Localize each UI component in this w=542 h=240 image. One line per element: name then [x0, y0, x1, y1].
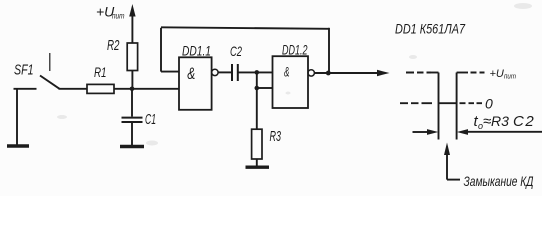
node: C2/R3/input junction — [254, 70, 259, 75]
svg-text:C1: C1 — [145, 111, 156, 128]
gate DD1.2 — [273, 56, 315, 108]
resistor R1 — [87, 84, 114, 93]
waveform: zero level dashed (left) — [400, 102, 432, 104]
wire: DD1.2 output to arrow — [314, 72, 378, 74]
waveform: rising edge — [456, 73, 458, 140]
node: output/feedback junction — [326, 71, 331, 76]
svg-text:Замыкание КД: Замыкание КД — [464, 173, 534, 189]
wire: DD1.1 output to C2 — [218, 71, 232, 73]
svg-text:&: & — [187, 64, 195, 83]
ground (under C1) — [120, 145, 144, 148]
wire: C2 to DD1.2 top input — [238, 71, 273, 73]
node: lower input junction — [254, 86, 259, 91]
waveform: falling edge — [438, 73, 440, 140]
capacitor C1 — [122, 89, 143, 145]
waveform: high level solid before falling edge — [431, 72, 439, 74]
power +Upit arrow — [129, 4, 135, 17]
callout arrow (Zamykanie KD) — [444, 143, 460, 180]
svg-text:R2: R2 — [107, 37, 120, 54]
svg-text:DD1 К561ЛА7: DD1 К561ЛА7 — [395, 22, 465, 37]
ground (under R3) — [246, 165, 270, 168]
dimension line right of t (with left-pointing arrowhead), continues as underline — [457, 129, 542, 135]
svg-text:≈: ≈ — [483, 113, 491, 130]
wire: feedback right vertical down to output node — [328, 28, 330, 73]
wire: junction down — [256, 72, 258, 88]
resistor R2 — [127, 43, 137, 71]
wire: R1 to DD1.1 input (through node) — [114, 88, 179, 90]
svg-text:C2: C2 — [230, 43, 242, 59]
wire: R2 to +U supply — [131, 14, 133, 43]
svg-text:+U: +U — [490, 68, 504, 80]
svg-text:R3: R3 — [270, 128, 282, 145]
svg-text:DD1.1: DD1.1 — [182, 44, 211, 59]
svg-text:&: & — [284, 65, 290, 80]
svg-text:пит: пит — [112, 12, 125, 21]
gate DD1.1 — [179, 57, 218, 110]
wire: to DD1.2 bottom input — [257, 87, 273, 89]
svg-text:SF1: SF1 — [14, 62, 34, 79]
switch SF1 — [14, 53, 60, 89]
svg-text:C2: C2 — [513, 113, 535, 130]
ground (left, under SF1) — [7, 89, 29, 146]
waveform: pulse bottom (0 level solid) — [439, 102, 457, 104]
waveform: zero level dashed (right) — [460, 102, 483, 104]
svg-text:R3: R3 — [491, 113, 509, 129]
wire: junction down to R3 — [256, 88, 258, 130]
wire: R2 bottom to node — [131, 71, 133, 89]
waveform: high level solid after rising edge — [457, 72, 468, 74]
waveform: high level dashed (left) — [406, 72, 431, 74]
dimension line left of t (with right-pointing arrowhead) — [413, 129, 439, 135]
svg-text:R1: R1 — [94, 64, 107, 80]
svg-text:DD1.2: DD1.2 — [282, 43, 308, 58]
output arrowhead — [377, 70, 390, 76]
resistor R3 — [252, 129, 262, 159]
svg-text:пит: пит — [504, 72, 516, 81]
faint scan smudges (decorative) — [57, 3, 532, 146]
node: junction R1/R2/C1 — [130, 87, 135, 92]
wire: R3 to ground — [256, 159, 258, 166]
waveform: high level dashed (right) — [471, 72, 485, 74]
wire: feedback left vertical, to DD1.1 top input — [161, 28, 179, 72]
wire: switch to R1 — [59, 88, 88, 90]
wire: feedback top horizontal — [161, 27, 329, 29]
capacitor C2 — [232, 64, 238, 81]
svg-text:0: 0 — [485, 96, 493, 112]
